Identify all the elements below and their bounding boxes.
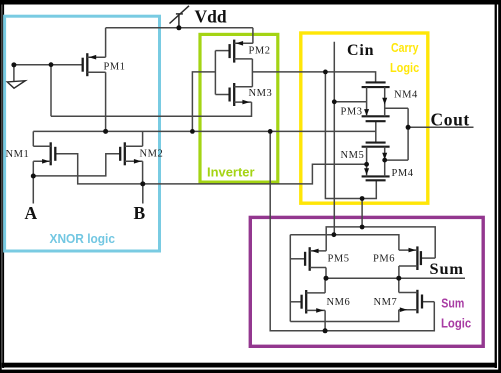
- pass gate PM3/NM4 (TG1): [362, 82, 390, 121]
- junction NM6 source on XNOR line: [323, 328, 328, 333]
- wire Vdd to PM1 source: [105, 28, 107, 57]
- junction node A: [31, 174, 36, 179]
- wire NM1 gate to node B: [55, 154, 143, 184]
- svg-text:Cin: Cin: [347, 42, 374, 59]
- svg-text:PM1: PM1: [104, 62, 126, 73]
- svg-text:PM6: PM6: [373, 253, 395, 264]
- svg-text:NM3: NM3: [249, 88, 273, 99]
- wire Cout: [408, 126, 473, 128]
- power symbol Vdd: [170, 6, 190, 28]
- wire XNOR output rail: [33, 130, 376, 132]
- wire NM6 gate lead: [290, 301, 301, 303]
- wire NM6 source drop: [324, 310, 326, 330]
- transistor NM1: [51, 142, 56, 165]
- junction Cin on lower sum rail: [332, 232, 337, 237]
- wire inverter output to TG1 top gate: [252, 72, 375, 83]
- svg-text:NM1: NM1: [6, 149, 30, 160]
- transistor PM5: [305, 247, 310, 271]
- wire inverter common gate vertical: [214, 51, 216, 95]
- junction inverter output branch: [360, 196, 365, 201]
- wire NM6 drain riser: [324, 278, 326, 293]
- wire NM7 drain riser: [398, 278, 400, 292]
- junction node Cout: [406, 125, 411, 130]
- wire TG right common vertical: [407, 108, 409, 160]
- wire NM2 source drop and input B stem: [142, 161, 144, 203]
- junction Sum rail left: [324, 276, 329, 281]
- transistor PM1: [83, 53, 88, 76]
- svg-text:PM4: PM4: [392, 168, 414, 179]
- box Carry Logic (yellow): [301, 33, 428, 203]
- svg-text:Vdd: Vdd: [195, 6, 227, 26]
- wire PM6 drain drop: [398, 266, 400, 278]
- wire PM5-NM6 gate vertical: [289, 235, 291, 322]
- wire ground to PM1 gate: [14, 64, 83, 66]
- wire XNOR output drop to sum stage: [270, 131, 434, 330]
- wire PM2 gate lead: [215, 50, 229, 52]
- svg-text:PM3: PM3: [341, 107, 363, 118]
- svg-text:NM5: NM5: [341, 150, 365, 161]
- svg-text:PM5: PM5: [328, 253, 350, 264]
- wire TG1 right terminal: [385, 107, 408, 109]
- svg-text:Logic: Logic: [441, 316, 471, 330]
- svg-text:A: A: [25, 203, 38, 223]
- wire NM1 source and input A stem: [32, 161, 34, 203]
- svg-text:Sum: Sum: [441, 297, 464, 311]
- wire inverter output drop to TG2 bottom gate: [325, 72, 376, 199]
- wire PM1 gate drop: [50, 65, 52, 117]
- wire node B to TG2 left terminal: [143, 164, 367, 184]
- svg-text:Sum: Sum: [430, 259, 464, 278]
- box XNOR logic (cyan): [5, 16, 160, 251]
- wire Cin vertical: [333, 42, 335, 235]
- wire ground symbol stem: [13, 65, 15, 82]
- svg-text:NM4: NM4: [394, 90, 418, 101]
- junction Sum rail right: [396, 276, 401, 281]
- wire Vdd rail: [106, 27, 253, 29]
- wire NM7 gate lead: [422, 301, 434, 303]
- transistor PM6: [417, 246, 421, 270]
- wire NM1 drain riser: [32, 131, 34, 146]
- junction TG2 right terminal: [382, 158, 387, 163]
- wire NM2 drain riser: [142, 131, 144, 146]
- junction node B: [140, 181, 145, 186]
- svg-text:NM7: NM7: [374, 297, 398, 308]
- junction inverter input tap: [190, 129, 195, 134]
- transistor NM7: [417, 290, 422, 314]
- box Inverter (green): [200, 34, 278, 182]
- wire inverter input riser: [192, 72, 215, 131]
- wire PM2-NM3 drain vertical: [251, 59, 253, 87]
- wire TG1 bottom gate stem: [375, 121, 377, 142]
- pass gate NM5/PM4 (TG2): [362, 143, 390, 181]
- transistor NM6: [302, 290, 307, 314]
- wire node A to NM2 gate: [33, 154, 120, 176]
- junction PM1 drain on XNOR rail: [103, 129, 108, 134]
- svg-text:NM2: NM2: [140, 149, 164, 160]
- junction XNOR output drop tap: [268, 129, 273, 134]
- transistor NM2: [120, 142, 125, 165]
- wire Cin to TG1 left terminal: [334, 101, 366, 103]
- svg-text:XNOR logic: XNOR logic: [50, 232, 116, 246]
- svg-text:NM6: NM6: [327, 297, 351, 308]
- ground symbol: [7, 81, 25, 89]
- junction ground node: [11, 62, 16, 67]
- wire PM5 gate lead: [290, 258, 305, 260]
- wire Vdd to PM2 source: [252, 28, 254, 44]
- junction Vdd tap: [176, 25, 181, 30]
- junction inverter output tap: [323, 70, 328, 75]
- wire Sum output rail: [326, 277, 465, 279]
- svg-text:Inverter: Inverter: [207, 165, 255, 179]
- wire PM5 drain drop: [325, 268, 327, 279]
- wire sum rail lower (Cin): [290, 235, 399, 250]
- transistor PM2: [230, 40, 235, 63]
- transistor NM3: [230, 83, 235, 106]
- wire inverter output drop to sum rail: [361, 199, 363, 228]
- wire NM7 source to PM5 gate net: [290, 310, 399, 322]
- svg-text:B: B: [134, 203, 146, 223]
- box Sum Logic (purple): [250, 217, 483, 346]
- svg-text:Cout: Cout: [431, 110, 470, 130]
- wire TG2 right terminal: [385, 159, 408, 161]
- svg-text:Carry: Carry: [391, 41, 419, 55]
- svg-text:PM2: PM2: [249, 46, 271, 57]
- wire NM3 gate lead: [215, 94, 229, 96]
- wire ground line to NM3 source: [51, 102, 252, 116]
- junction on upper sum rail: [360, 225, 365, 230]
- wire PM1 drain drop: [105, 72, 107, 131]
- junction PM1 gate tap: [49, 62, 54, 67]
- junction Cin to TG1: [332, 99, 337, 104]
- wire PM6 gate lead: [421, 257, 435, 259]
- wire sum rail upper (inverter-out): [326, 227, 435, 258]
- svg-text:Logic: Logic: [390, 61, 419, 75]
- junction TG2 left terminal: [364, 162, 369, 167]
